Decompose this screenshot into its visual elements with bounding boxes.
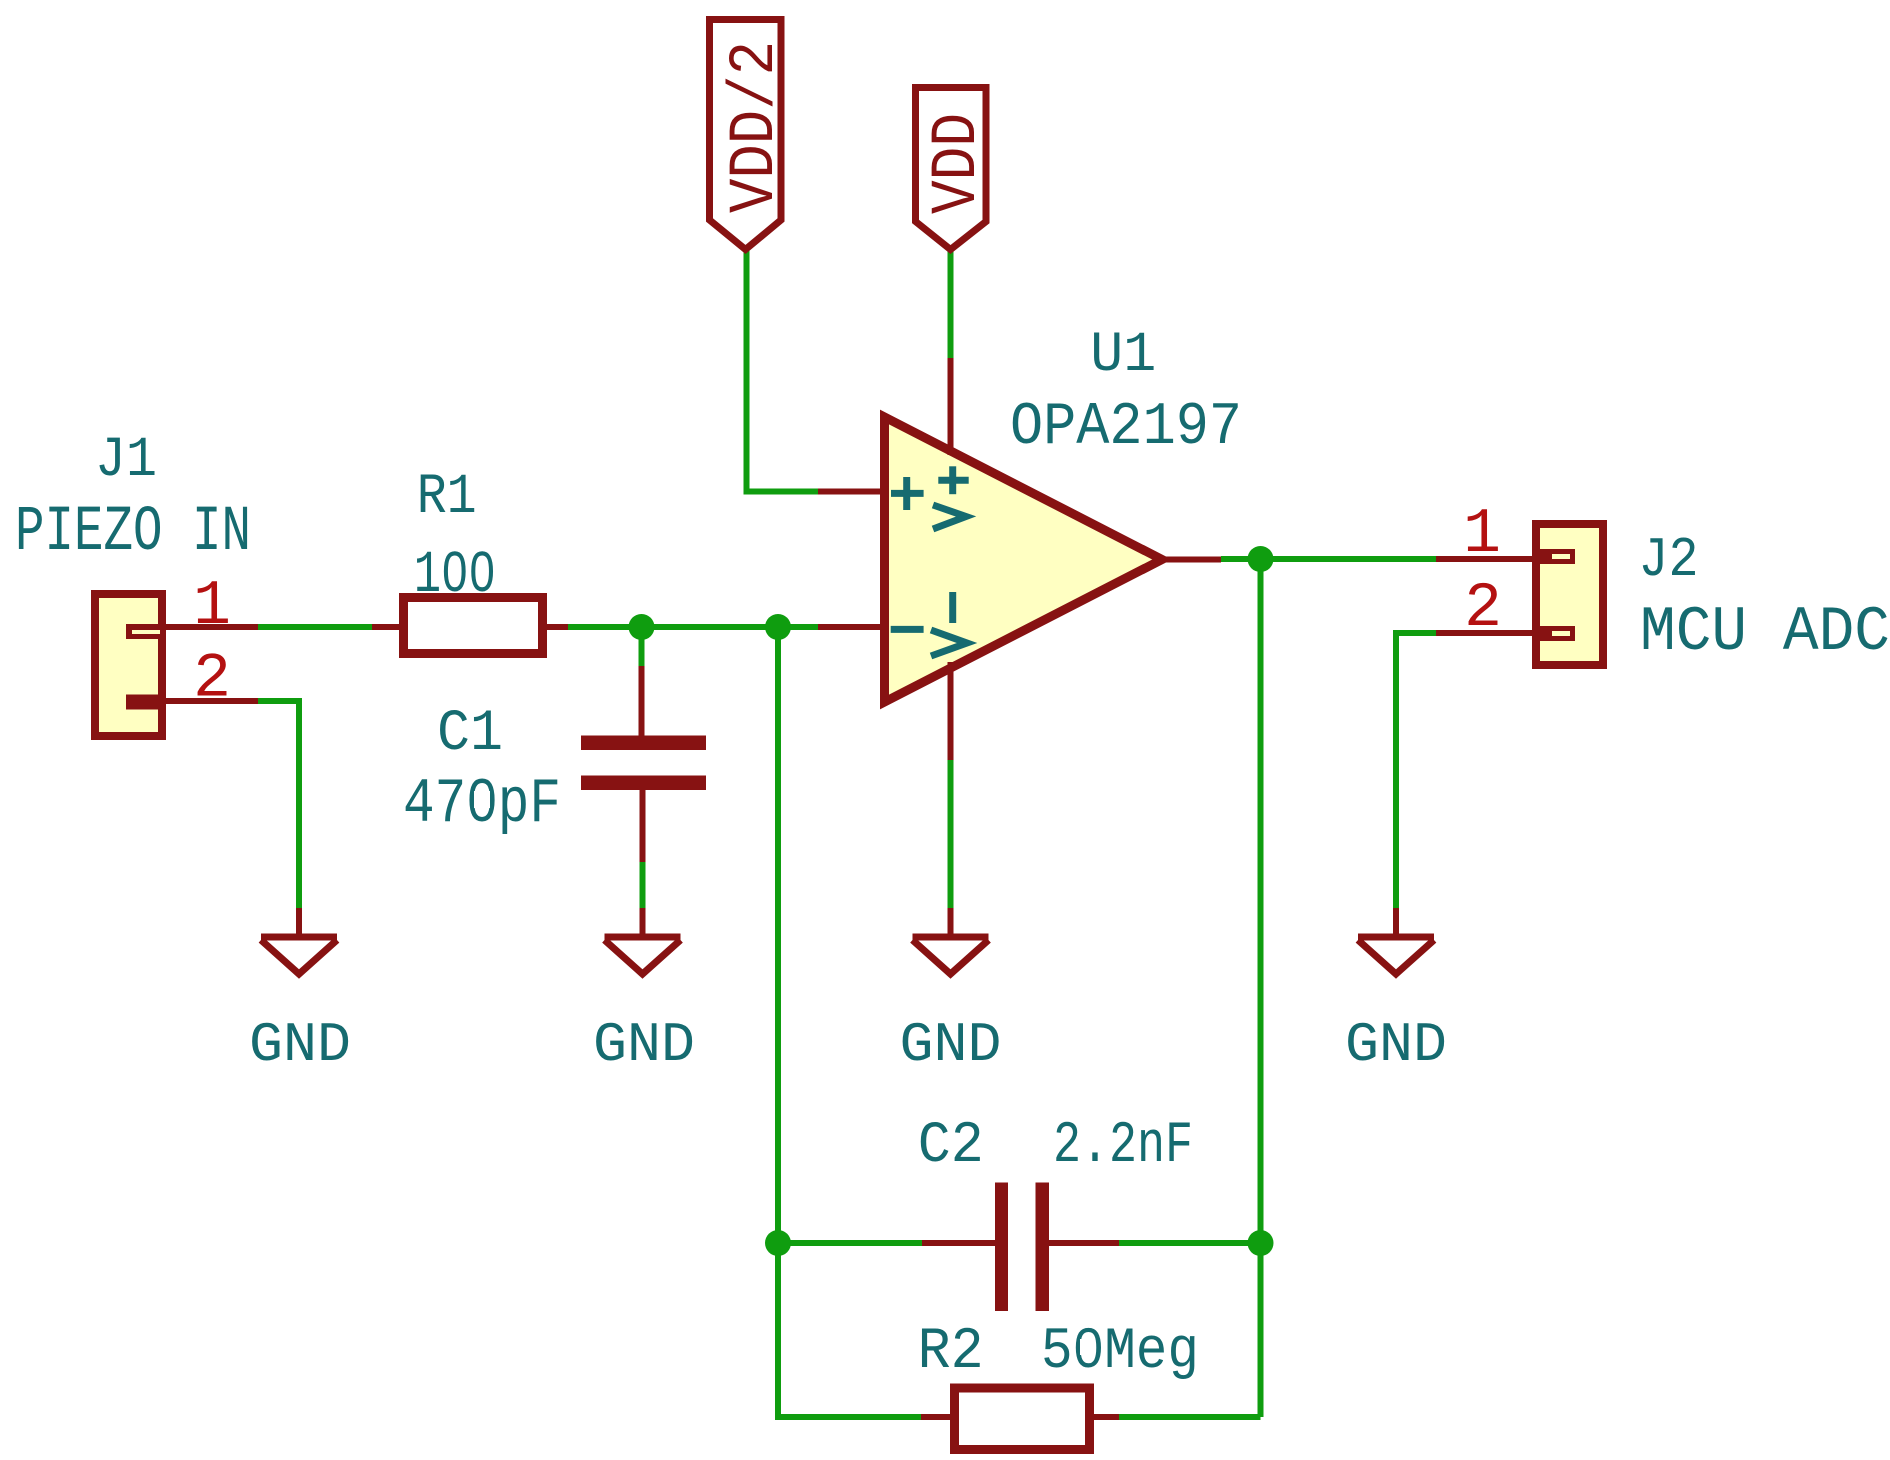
value PIEZO IN	[15, 497, 251, 569]
reference C2	[918, 1114, 984, 1179]
value 50Meg	[1041, 1320, 1199, 1385]
pin number 1 of J2	[1463, 499, 1501, 570]
svg-text:GND: GND	[1345, 1013, 1447, 1077]
ground label GND at op-amp	[900, 1013, 1002, 1077]
junction at R1/C1 node	[629, 614, 655, 640]
connector J2 body	[1532, 524, 1603, 665]
pin 2 of J1	[162, 698, 258, 704]
reference J1	[95, 429, 157, 493]
wire feedback to C2 left	[778, 1240, 922, 1246]
svg-text:MCU ADC: MCU ADC	[1640, 597, 1890, 668]
reference R1	[417, 466, 477, 530]
pin 2 of J2	[1436, 630, 1536, 636]
resistor R2	[921, 1388, 1119, 1450]
ground label GND at J1	[249, 1013, 351, 1077]
ground label GND at C1	[593, 1013, 695, 1077]
wire R2 right to right column	[1119, 1414, 1261, 1420]
capacitor C2	[922, 1183, 1119, 1312]
svg-text:R1: R1	[417, 466, 477, 530]
wire C1 to GND	[640, 862, 646, 908]
value 2.2nF	[1053, 1114, 1193, 1179]
capacitor C1	[581, 666, 706, 862]
svg-text:GND: GND	[593, 1013, 695, 1077]
svg-text:2.2nF: 2.2nF	[1053, 1114, 1193, 1179]
svg-text:50Meg: 50Meg	[1041, 1320, 1199, 1385]
svg-text:VDD/2: VDD/2	[720, 41, 792, 213]
wire VDD to op-amp V+ pin	[948, 250, 954, 358]
power symbol VDD/2	[710, 20, 793, 250]
pin 1 of J2	[1436, 556, 1536, 562]
ground symbol at J2	[1358, 908, 1434, 974]
value 470pF	[403, 769, 561, 840]
power symbol VDD	[916, 88, 995, 250]
svg-text:C1: C1	[437, 702, 503, 767]
resistor R1	[372, 598, 568, 654]
reference R2	[918, 1320, 984, 1385]
reference J2	[1639, 528, 1699, 592]
value OPA2197	[1010, 394, 1242, 462]
wire from J1 pin1 to R1	[258, 624, 372, 630]
svg-text:VDD: VDD	[922, 113, 994, 214]
wire op-amp output to J2 pin1	[1221, 556, 1436, 562]
svg-text:PIEZO IN: PIEZO IN	[15, 497, 251, 569]
ground symbol at J1	[261, 908, 337, 974]
wire op-amp V- pin to GND	[948, 760, 954, 908]
svg-text:2: 2	[193, 644, 231, 715]
svg-text:GND: GND	[249, 1013, 351, 1077]
svg-text:GND: GND	[900, 1013, 1002, 1077]
reference U1	[1090, 324, 1156, 388]
wire from R1 to op-amp inverting input	[568, 624, 818, 630]
ground symbol at op-amp	[913, 908, 989, 974]
pin number 2 of J1	[193, 644, 231, 715]
wire C2 right to right column	[1119, 1240, 1261, 1246]
svg-text:1: 1	[193, 571, 231, 642]
junction at output node	[1248, 546, 1274, 572]
op-amp U1	[818, 358, 1221, 760]
connector J1 body	[95, 594, 166, 736]
svg-text:C2: C2	[918, 1114, 984, 1179]
pin number 1 of J1	[193, 571, 231, 642]
wire feedback left column	[778, 627, 921, 1417]
wire J1 pin2 to GND	[258, 701, 299, 908]
svg-text:J1: J1	[95, 429, 157, 493]
junction at C2 right node	[1248, 1230, 1274, 1256]
wire VDD/2 to op-amp non-inverting input	[747, 250, 819, 492]
value MCU ADC	[1640, 597, 1890, 668]
junction at inverting input node	[765, 614, 791, 640]
wire stub junction to C1	[639, 627, 645, 666]
svg-text:2: 2	[1464, 573, 1502, 644]
value 100	[414, 542, 496, 609]
pin number 2 of J2	[1464, 573, 1502, 644]
svg-text:R2: R2	[918, 1320, 984, 1385]
wire J2 pin2 to GND	[1396, 633, 1436, 908]
pin 1 of J1	[162, 624, 258, 630]
svg-text:OPA2197: OPA2197	[1010, 394, 1242, 462]
svg-text:J2: J2	[1639, 528, 1699, 592]
wire output feedback right column	[1258, 559, 1264, 1417]
ground label GND at J2	[1345, 1013, 1447, 1077]
reference C1	[437, 702, 503, 767]
svg-text:U1: U1	[1090, 324, 1156, 388]
svg-text:1: 1	[1463, 499, 1501, 570]
ground symbol at C1	[605, 908, 681, 974]
junction at C2 left node	[765, 1230, 791, 1256]
